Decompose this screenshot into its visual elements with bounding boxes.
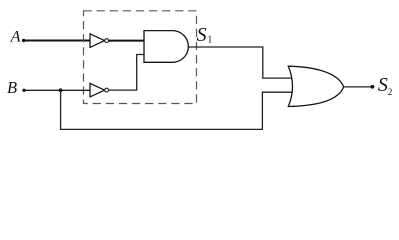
- AND gate: [144, 31, 188, 63]
- svg-text:B: B: [7, 78, 17, 97]
- svg-text:2: 2: [388, 87, 393, 97]
- inverter U1 bubble: [105, 39, 109, 43]
- junction dot on B wire: [59, 88, 63, 92]
- wire A to inverter U1: [24, 40, 91, 42]
- wire OR output to S2: [344, 86, 373, 88]
- node dot S2: [371, 85, 375, 89]
- wire inverter U2 to AND gate lower input: [109, 55, 144, 91]
- wire S1: AND output to OR upper input: [188, 47, 293, 78]
- svg-text:1: 1: [207, 35, 212, 46]
- inverter U1 triangle: [90, 34, 105, 48]
- svg-text:S: S: [378, 74, 388, 96]
- OR gate: [288, 66, 343, 106]
- wire B to inverter U2: [24, 89, 91, 91]
- inverter U2 triangle: [90, 83, 105, 97]
- wire B branch: junction down, along bottom, up to OR lower input: [61, 90, 292, 129]
- node dot B: [22, 89, 25, 92]
- svg-text:S: S: [197, 24, 207, 46]
- dashed block boundary: [84, 11, 197, 104]
- inverter U2 bubble: [105, 88, 109, 92]
- node dot A: [22, 39, 25, 42]
- svg-text:A: A: [10, 29, 21, 46]
- wire inverter U1 to AND gate: [109, 40, 144, 42]
